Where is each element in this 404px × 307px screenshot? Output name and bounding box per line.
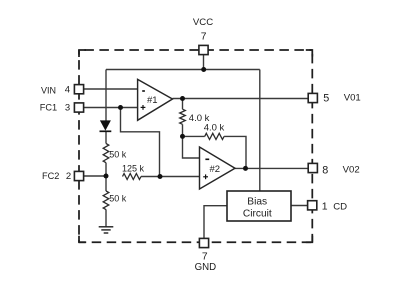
svg-text:#1: #1 [147, 95, 158, 106]
wire 4.0k feedback right lead down to output [224, 136, 246, 168]
svg-text:1: 1 [322, 201, 328, 213]
node amp2 + input [158, 174, 163, 179]
pin 3 FC1 [74, 103, 83, 112]
dashed package border [79, 50, 312, 242]
ground [99, 227, 114, 233]
svg-text:2: 2 [66, 171, 71, 182]
wire FC1 line [84, 107, 138, 109]
wire VIN line [84, 88, 138, 90]
svg-text:5: 5 [323, 92, 329, 104]
wire FC2 node to lower 50k to ground [105, 210, 107, 227]
pin 8 V02 [308, 163, 317, 172]
resistor 125 k (horizontal) [123, 174, 142, 180]
svg-text:4.0 k: 4.0 k [204, 123, 225, 134]
svg-text:125 k: 125 k [122, 163, 145, 173]
wire 4.0k vertical bottom lead to node [182, 124, 184, 136]
pin 7 VCC [199, 45, 208, 54]
junction dots [104, 67, 249, 179]
wire GND pin up and right to bias circuit [204, 206, 227, 239]
wire node down to amp2 - input [183, 136, 200, 158]
svg-text:3: 3 [65, 103, 70, 114]
node amp2 output [243, 166, 248, 171]
svg-text:VCC: VCC [193, 17, 213, 28]
wire 4.0k feedback left lead [183, 135, 205, 137]
svg-text:VIN: VIN [41, 85, 56, 95]
wire VCC drop to top rail [203, 55, 205, 70]
svg-text:7: 7 [202, 252, 208, 263]
op-amp U2 (#2) [200, 147, 236, 189]
pin 5 V01 [308, 93, 317, 102]
svg-text:50 k: 50 k [109, 194, 127, 204]
resistor 50 k (upper, bias divider) [103, 144, 109, 163]
svg-text:Bias: Bias [247, 197, 267, 208]
svg-text:7: 7 [201, 32, 207, 43]
svg-text:8: 8 [322, 165, 328, 177]
diode D1 (anode from VCC rail) [100, 120, 112, 131]
svg-text:#2: #2 [210, 164, 221, 175]
wire 4.0k vertical top lead [182, 99, 184, 110]
svg-text:Circuit: Circuit [243, 208, 272, 219]
border corner dashes [79, 50, 312, 242]
svg-text:GND: GND [195, 262, 217, 273]
node FC1 branch [118, 105, 123, 110]
svg-text:50 k: 50 k [109, 150, 127, 160]
pin 1 CD [308, 201, 317, 210]
node feedback junction [180, 134, 185, 139]
node amp1 output [180, 96, 185, 101]
wire jog from FC1 node down to amp2 + input line [121, 108, 160, 177]
wire 50k to FC2 node [105, 163, 107, 191]
pin squares [74, 45, 317, 247]
svg-text:V02: V02 [343, 165, 360, 176]
wire top rail [106, 69, 260, 71]
resistor 4.0 k (horizontal feedback) [205, 133, 224, 139]
wire 125k line to amp2 + input [141, 176, 200, 178]
wire bias circuit to CD pin [291, 205, 308, 207]
svg-text:FC1: FC1 [40, 103, 57, 113]
svg-text:4: 4 [65, 85, 70, 96]
svg-text:V01: V01 [344, 93, 361, 104]
svg-text:FC2: FC2 [42, 171, 59, 181]
pin 2 FC2 [74, 171, 83, 180]
wire diode cathode to 50k [105, 131, 107, 143]
wire bias-divider vertical from top rail to diode [105, 70, 107, 121]
node FC2 / divider [104, 174, 109, 179]
svg-text:CD: CD [333, 202, 347, 213]
node VCC rail [201, 67, 206, 72]
pin 7 GND [199, 238, 208, 247]
wire FC2 line [84, 175, 107, 177]
wire amp2 output to V02 [235, 167, 308, 169]
pin 4 VIN [74, 85, 83, 94]
wire right rail drop to bias circuit [259, 70, 261, 192]
wire amp1 output to V01 [173, 98, 309, 100]
op-amp U1 (#1) [138, 79, 173, 120]
resistor 50 k (lower, bias divider) [103, 191, 109, 210]
bias circuit block [227, 191, 291, 221]
resistor 4.0 k (vertical) [180, 109, 186, 124]
